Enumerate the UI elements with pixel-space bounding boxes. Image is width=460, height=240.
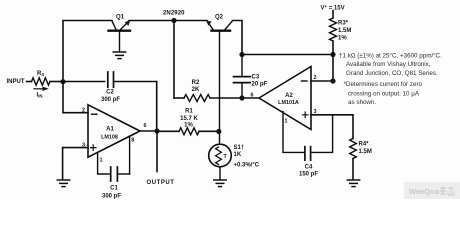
svg-text:Q1: Q1 [116,15,125,21]
svg-text:1K: 1K [234,152,242,158]
wire input node to C2 [63,81,105,83]
A1 minus sign [92,113,98,115]
svg-text:C3: C3 [252,75,260,81]
watermark box [404,182,460,199]
svg-text:6: 6 [144,123,147,129]
wire rail to R3 [242,54,333,56]
resistor Rs [27,81,32,83]
ground under R4 [347,180,359,187]
svg-text:LM108: LM108 [101,135,118,141]
A1 pin8 wire [129,136,131,174]
A2 minus sign [302,80,308,82]
svg-text:2N2920: 2N2920 [163,11,185,17]
svg-text:INPUT: INPUT [7,79,25,85]
svg-text:8: 8 [131,138,134,144]
op-amp A2 [259,67,311,130]
svg-text:1%: 1% [338,36,347,42]
A1 plus sign [91,145,97,151]
thermistor S1 [209,132,232,180]
svg-text:150 pF: 150 pF [299,171,318,177]
resistor R3 [332,11,334,19]
wire A2 output to vertex [242,97,259,99]
node emitters junction [171,18,176,23]
wire Q2 base down [219,32,221,132]
svg-text:2: 2 [82,108,85,114]
capacitor C2 [107,72,109,87]
svg-text:1%: 1% [184,122,193,128]
wire C4 to pin3 net [311,115,333,153]
ground under S1 [214,180,226,187]
capacitor C4 [304,147,306,161]
resistor R1 [157,130,179,132]
resistor R4 [350,139,357,159]
ground under A1 pin3 [57,180,69,187]
wire A1 output [140,130,157,132]
input arrowhead [43,87,49,91]
A2 pin1 wire to C4 [283,112,305,153]
svg-text:300 pF: 300 pF [102,193,121,199]
node A1 output junction [154,128,159,133]
svg-text:3: 3 [82,143,85,149]
svg-text:C4: C4 [305,165,313,171]
capacitor C1 [110,167,112,181]
svg-text:Q2: Q2 [215,15,224,21]
svg-text:R4*: R4* [359,141,370,147]
svg-text:2: 2 [314,75,317,81]
svg-text:2K: 2K [192,87,200,93]
svg-text:*Determines current for zero: *Determines current for zero [344,81,423,88]
wire input node down to A1 pin2 [63,82,88,113]
svg-text:1: 1 [100,158,103,164]
transistor Q2 [206,20,233,31]
svg-text:15.7 K: 15.7 K [180,116,198,122]
wire A1 pin3 to ground [63,148,88,180]
A1 pin1 wire [98,152,111,174]
svg-text:crossing on output: 10 μA: crossing on output: 10 μA [348,91,420,98]
svg-text:IIN: IIN [37,93,43,99]
svg-text:C1: C1 [110,186,118,192]
wire A2 pin3 to R4 [311,115,353,139]
node A2 output junction [239,95,244,100]
wire emitters down to R2 [173,21,175,99]
wire C2 to output node [114,82,157,132]
input current arrow [34,88,44,90]
wire A2 pin2 [311,80,333,82]
svg-text:R3*: R3* [338,21,349,27]
svg-text:A1: A1 [106,127,114,133]
svg-text:†1 kΩ (±1%) at 25°C, +3600 ppm: †1 kΩ (±1%) at 25°C, +3600 ppm/°C. [339,53,442,60]
svg-text:300 pF: 300 pF [101,97,120,103]
svg-text:LM101A: LM101A [278,100,299,106]
svg-text:20 pF: 20 pF [252,82,268,88]
svg-text:C2: C2 [106,90,114,96]
svg-text:3: 3 [314,109,317,115]
svg-text:T: T [224,154,228,160]
wire Q2 collector to rail [233,21,243,55]
resistor R2 [174,97,184,99]
svg-text:S1†: S1† [234,145,245,151]
svg-text:R1: R1 [185,109,193,115]
ground under Q1 [113,52,125,59]
wire output down [156,131,158,172]
node A2 pin2 junction [330,78,335,83]
svg-text:Available from Vishay Ultronix: Available from Vishay Ultronix, [346,61,431,68]
svg-text:RS: RS [37,71,44,77]
svg-text:6: 6 [251,93,254,99]
transistor Q1 [109,20,131,51]
svg-text:V+ = 15V: V+ = 15V [321,4,345,12]
wire emitters rail [129,20,207,22]
svg-text:OUTPUT: OUTPUT [147,180,175,186]
svg-text:R2: R2 [192,80,200,86]
A2 plus sign [303,112,309,118]
svg-text:WeeQoo: WeeQoo [409,187,440,196]
svg-text:1: 1 [285,119,288,125]
svg-text:as shown.: as shown. [348,99,376,106]
capacitor C3 [234,55,251,99]
svg-text:Grand Junction, CO, Q81 Series: Grand Junction, CO, Q81 Series. [346,70,438,77]
op-amp A1 [88,105,140,157]
node R1 S1 Q2base junction [216,129,221,134]
node input junction [60,79,65,84]
wire input node to top rail [63,21,112,83]
svg-text:A2: A2 [285,93,293,99]
node Q2 collector rail junction [239,52,244,57]
node R3 bottom junction [330,52,335,57]
svg-text:+0.3%/°C: +0.3%/°C [234,162,260,168]
svg-text:1.5M: 1.5M [359,149,372,155]
svg-text:1.5M: 1.5M [338,28,351,34]
